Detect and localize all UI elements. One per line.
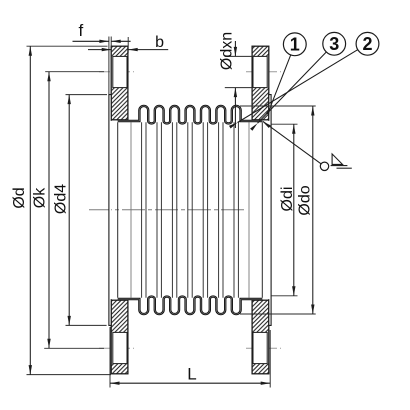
- main axis centerline: [89, 209, 246, 211]
- left flange (1) top band: [111, 46, 128, 120]
- bolt hole centerline top-left: [99, 71, 134, 73]
- bolt hole centerline bottom-left: [99, 347, 134, 349]
- bellows bottom profile: [118, 297, 263, 315]
- bolt hole centerline bottom-right: [246, 347, 281, 349]
- balloon 3 leader to collar: [250, 32, 346, 130]
- weld symbol: [263, 121, 352, 170]
- right flange (1) top band: [252, 46, 269, 120]
- bellows interior edge lines: [118, 122, 263, 297]
- dimension Ød4 (collar OD): [53, 95, 108, 326]
- dimension Ødo (bellows OD): [240, 106, 316, 314]
- svg-text:2: 2: [362, 34, 372, 54]
- bellows top profile: [118, 106, 263, 124]
- dimension f (collar thickness): [73, 21, 131, 94]
- svg-text:3: 3: [329, 34, 339, 54]
- left flange (1) bottom band: [111, 300, 128, 374]
- dimension b (flange thickness): [88, 34, 168, 53]
- svg-text:Ødo: Ødo: [297, 185, 314, 215]
- svg-text:Ød: Ød: [11, 187, 28, 208]
- bolt hole centerline top-right: [246, 71, 281, 73]
- dimension Ød (flange OD): [11, 46, 111, 374]
- svg-text:b: b: [155, 34, 164, 51]
- svg-text:Ødi: Ødi: [279, 187, 296, 212]
- balloon 1 leader to flange: [266, 33, 306, 115]
- svg-text:Ød4: Ød4: [53, 184, 70, 214]
- right flange (1) bottom band: [252, 300, 269, 374]
- svg-text:Ødxn: Ødxn: [219, 32, 236, 70]
- left collar (3): [109, 95, 111, 326]
- svg-text:1: 1: [290, 35, 300, 55]
- dimension L (overall length): [110, 327, 270, 388]
- svg-text:L: L: [187, 365, 196, 384]
- svg-text:Øk: Øk: [32, 187, 49, 208]
- dimension Ødxn (bolt holes): [219, 32, 253, 128]
- svg-text:f: f: [79, 21, 84, 40]
- balloon 2 leader to bellows: [229, 32, 379, 128]
- dimension Ødi (bellows ID): [271, 124, 298, 296]
- right collar (3): [269, 95, 271, 326]
- dimension Øk (bolt circle): [32, 72, 105, 349]
